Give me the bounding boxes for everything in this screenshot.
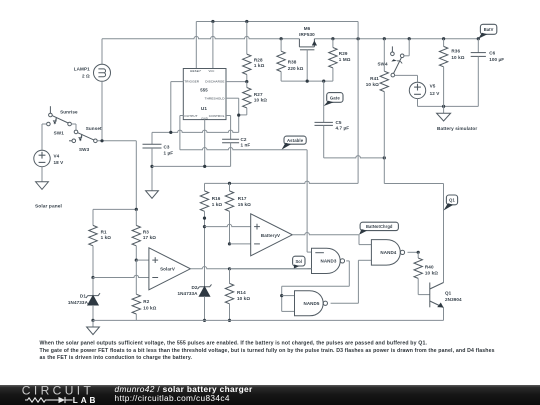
wire NAND4 output to R40	[408, 251, 419, 253]
wire SW1 common to V4	[42, 124, 47, 150]
svg-text:4.7 µF: 4.7 µF	[336, 126, 350, 131]
svg-text:10 kΩ: 10 kΩ	[254, 98, 267, 103]
wire astable vertical to NAND3	[307, 150, 311, 252]
svg-text:C2: C2	[241, 137, 247, 142]
resistor R36	[439, 39, 447, 107]
svg-text:BatV: BatV	[484, 27, 494, 32]
node top-rail R28 junction	[245, 20, 248, 23]
NAND gate NAND5	[295, 291, 324, 316]
svg-text:R14: R14	[237, 290, 246, 295]
zener D1 1N4733A	[86, 278, 100, 321]
svg-text:NAND3: NAND3	[320, 259, 336, 264]
svg-text:CONTROL: CONTROL	[209, 114, 225, 118]
svg-text:2 Ω: 2 Ω	[82, 74, 90, 79]
label R16 value	[212, 196, 223, 207]
wire gate column down to C5	[323, 81, 325, 122]
svg-text:C6: C6	[489, 50, 495, 55]
svg-text:18 V: 18 V	[54, 160, 65, 165]
switch SW3 Sunset	[69, 130, 97, 143]
svg-text:10 kΩ: 10 kΩ	[143, 305, 156, 310]
node R3 op-amp plus junction	[135, 259, 138, 262]
svg-text:TRIGGER: TRIGGER	[184, 80, 199, 84]
resistor R16	[200, 183, 208, 226]
footer bar	[0, 385, 540, 405]
svg-text:1 µF: 1 µF	[164, 151, 174, 156]
svg-text:220 kΩ: 220 kΩ	[288, 66, 304, 71]
svg-text:Solar panel: Solar panel	[35, 203, 62, 209]
node THRESHOLD R27 CONTROL junction	[237, 114, 240, 117]
svg-text:SW3: SW3	[79, 147, 90, 152]
resistor R29	[329, 39, 337, 81]
wire ground bus H3	[152, 165, 231, 167]
ground below C3	[146, 191, 159, 199]
label R14 value	[237, 290, 250, 301]
transistor Q1 2N3904	[430, 283, 444, 321]
resistor R17	[225, 183, 233, 244]
svg-text:SolarV: SolarV	[160, 267, 175, 272]
svg-text:OUTPUT: OUTPUT	[184, 114, 197, 118]
label C3 value	[164, 144, 174, 155]
node NAND4 output joint	[417, 251, 420, 254]
wire panel rail left segment	[102, 36, 299, 38]
label R28 value	[254, 58, 265, 68]
flag Astable	[284, 136, 306, 144]
resistor R41	[380, 39, 388, 158]
svg-text:When the solar panel outputs s: When the solar panel outputs sufficient …	[40, 340, 428, 346]
node C3 ground bus junction	[150, 165, 153, 168]
label V5 value	[430, 84, 441, 96]
svg-text:1 MΩ: 1 MΩ	[339, 57, 351, 62]
wire SW3 to lamp column	[97, 140, 136, 142]
svg-text:R1: R1	[101, 230, 107, 235]
svg-text:R3: R3	[143, 230, 149, 235]
label R27 value	[254, 92, 267, 103]
capacitor C2	[222, 139, 239, 166]
node R38 top junction	[280, 37, 283, 40]
node DISCHARGE R27 R28 junction	[245, 80, 248, 83]
wire SolarV out extension to NAND3 B	[230, 268, 312, 270]
node SolarV out R14 junction	[228, 267, 231, 270]
svg-text:Sunrise: Sunrise	[60, 110, 78, 115]
wire VCC riser from top rail down to battery rail	[357, 22, 359, 39]
wire battery sim bottom	[418, 105, 479, 107]
wire SW1 to SW3	[71, 124, 76, 130]
resistor R38	[277, 39, 285, 81]
NAND gate NAND4	[371, 240, 400, 266]
switch SW1 Sunrise	[47, 106, 72, 126]
label Q1 value	[445, 290, 462, 302]
svg-text:THRESHOLD: THRESHOLD	[205, 96, 226, 100]
resistor R3	[132, 209, 140, 260]
resistor R2	[132, 294, 140, 320]
wire VCC bus to R16 R17	[205, 181, 359, 183]
svg-text:http://circuitlab.com/cu834c4: http://circuitlab.com/cu834c4	[115, 393, 230, 403]
wire R2 column through hop	[135, 260, 137, 294]
flag BatNotChrgd	[360, 222, 398, 230]
flag Sol	[293, 256, 305, 266]
wire minus input bus	[93, 275, 149, 277]
label D1 value	[68, 294, 89, 305]
svg-text:Sol: Sol	[295, 259, 302, 264]
flag Gate	[327, 93, 343, 103]
svg-text:C3: C3	[164, 144, 170, 149]
NAND gate NAND3	[312, 248, 345, 273]
svg-text:NAND5: NAND5	[303, 301, 319, 306]
wire NAND5 input B	[282, 310, 295, 312]
svg-text:D2: D2	[192, 285, 198, 290]
svg-text:IRF530: IRF530	[299, 32, 315, 37]
resistor R14	[225, 269, 233, 321]
svg-text:1 kΩ: 1 kΩ	[101, 235, 112, 240]
resistor R27	[239, 82, 251, 115]
op-amp SolarV	[149, 248, 191, 290]
node M6 gate junction	[306, 80, 309, 83]
wire NAND3 input B from SolarV	[308, 268, 312, 270]
svg-text:Q1: Q1	[449, 198, 455, 203]
svg-text:10 kΩ: 10 kΩ	[366, 82, 379, 87]
svg-text:1N4733A: 1N4733A	[177, 291, 198, 296]
wire 555 OUTPUT stub	[180, 116, 183, 150]
node NAND5 tied inputs junction	[280, 294, 283, 297]
wire main ground bus bottom	[93, 319, 444, 321]
label R2 value	[143, 299, 156, 310]
svg-text:M6: M6	[304, 26, 311, 31]
wire BatteryV output to NAND4	[292, 233, 371, 245]
wire DISCHARGE to R28	[226, 81, 247, 83]
capacitor C3	[143, 132, 162, 190]
label R3 value	[143, 230, 156, 241]
svg-text:R27: R27	[254, 92, 263, 97]
node R36 top junction	[442, 37, 445, 40]
svg-text:1 nF: 1 nF	[241, 143, 251, 148]
svg-text:as the FET is driven into cond: as the FET is driven into conduction to …	[40, 355, 193, 361]
wire SW4 common to rail	[404, 39, 409, 56]
wire SW4 throw to V5	[395, 75, 418, 82]
label R1 value	[101, 230, 112, 241]
label R29 value	[339, 51, 351, 62]
wire BatteryV minus input	[230, 243, 251, 245]
svg-text:R38: R38	[288, 60, 297, 65]
wire 555 RESET riser	[195, 22, 197, 69]
label C2 value	[241, 137, 251, 147]
svg-text:10 kΩ: 10 kΩ	[425, 271, 438, 276]
wire trigger-threshold net H1	[152, 130, 239, 132]
svg-text:R2: R2	[143, 299, 149, 304]
wire NAND3 output loop to NAND5	[282, 261, 350, 312]
voltage source V5 battery	[409, 82, 425, 106]
wire SolarV output	[190, 267, 311, 269]
label R36 value	[451, 49, 464, 60]
svg-text:555: 555	[200, 87, 208, 92]
resistor R28	[243, 22, 251, 82]
wire NAND5 output to NAND4 input B	[331, 260, 372, 303]
node R16 plus input junction	[203, 225, 206, 228]
wire SW3 net down to divider	[93, 141, 136, 226]
node R17 minus input junction	[228, 242, 231, 245]
node R17 top junction	[228, 182, 231, 185]
ground below V4	[36, 182, 49, 190]
svg-text:LAB: LAB	[73, 396, 99, 405]
wire VCC riser battery rail to R16 R17 bus	[357, 39, 359, 184]
svg-text:VCC: VCC	[209, 69, 215, 73]
node BatV C6 corner	[477, 37, 480, 40]
svg-text:10 kΩ: 10 kΩ	[237, 296, 250, 301]
label R38 value	[288, 60, 304, 71]
flag BatV	[480, 24, 496, 34]
switch SW4	[391, 46, 404, 76]
node R1 minus bus junction	[91, 276, 94, 279]
description text	[40, 340, 495, 361]
wire R16 column down to D2	[204, 227, 206, 287]
node GND riser bus junction	[203, 165, 206, 168]
svg-text:12 V: 12 V	[430, 91, 441, 96]
ground battery simulator	[437, 106, 451, 121]
wire CONTROL to C2	[226, 116, 231, 140]
node D2 ground bus junction	[203, 319, 206, 322]
node battery sim ground junction	[442, 105, 445, 108]
wire R3 to SolarV plus input	[136, 259, 149, 261]
svg-text:NAND4: NAND4	[380, 250, 396, 255]
svg-text:LAMP1: LAMP1	[74, 66, 90, 71]
transistor M6 IRF530 power FET	[299, 39, 317, 81]
label C6 value	[489, 50, 504, 62]
svg-text:V4: V4	[54, 154, 60, 159]
label R41 value	[366, 76, 379, 87]
label C5 value	[336, 120, 350, 131]
zener D2 1N4733A	[198, 284, 212, 320]
op-amp BatteryV	[251, 214, 293, 256]
node lamp SW3 junction	[100, 139, 103, 142]
label D2 value	[177, 285, 198, 296]
svg-text:R29: R29	[339, 51, 348, 56]
node divider split junction	[135, 208, 138, 211]
wire C5 to R41 column	[324, 156, 385, 158]
svg-text:SW1: SW1	[54, 130, 65, 135]
svg-text:Sunset: Sunset	[86, 126, 102, 131]
svg-text:RESET: RESET	[190, 69, 202, 73]
svg-text:2N3904: 2N3904	[445, 297, 462, 302]
svg-text:10 kΩ: 10 kΩ	[451, 55, 464, 60]
svg-text:R16: R16	[212, 196, 221, 201]
node SW4 branch junction	[408, 37, 411, 40]
label M6 IRF530	[299, 26, 315, 37]
svg-text:D1: D1	[80, 294, 86, 299]
lamp LAMP1	[94, 39, 111, 141]
node R16 segment joint	[203, 217, 206, 220]
svg-text:R17: R17	[238, 196, 247, 201]
svg-text:15 kΩ: 15 kΩ	[238, 202, 251, 207]
wire 555 VCC riser	[212, 22, 214, 69]
svg-text:Gate: Gate	[330, 95, 340, 100]
svg-text:R41: R41	[370, 76, 379, 81]
svg-text:C5: C5	[336, 120, 342, 125]
footer credit text	[115, 384, 253, 403]
svg-text:DISCHARGE: DISCHARGE	[205, 80, 224, 84]
svg-text:R28: R28	[254, 58, 263, 63]
wire BatteryV plus input	[205, 224, 251, 226]
wire R41 column to Q1 collector	[384, 158, 443, 283]
svg-text:1N4733A: 1N4733A	[68, 300, 89, 305]
wire battery rail right segment	[314, 38, 478, 40]
flag Q1 net	[446, 195, 457, 205]
wire THRESHOLD stub	[226, 98, 239, 132]
node gate flag junction	[322, 80, 325, 83]
capacitor C6	[471, 39, 486, 107]
wire 555 GND riser	[204, 120, 206, 167]
svg-text:1 kΩ: 1 kΩ	[254, 63, 265, 68]
node top-rail VCC riser junction	[211, 20, 214, 23]
label R40 value	[425, 264, 438, 275]
svg-text:V5: V5	[430, 84, 436, 89]
svg-text:R40: R40	[425, 264, 434, 269]
ground main bus	[87, 320, 100, 334]
wire NAND5 input A	[282, 295, 295, 297]
wire TRIGGER stub	[171, 82, 184, 133]
svg-text:BatNotChrgd: BatNotChrgd	[366, 224, 393, 229]
logo CIRCUIT LAB	[22, 384, 99, 405]
node R29 top junction	[331, 37, 334, 40]
svg-text:BatteryV: BatteryV	[261, 233, 280, 238]
label LAMP1 value	[74, 66, 90, 78]
label R17 value	[238, 196, 251, 207]
node D1 ground junction	[91, 319, 94, 322]
svg-text:Astable: Astable	[287, 138, 304, 143]
svg-text:SW4: SW4	[377, 62, 388, 67]
svg-text:U1: U1	[201, 106, 207, 111]
node TRIGGER H1 junction	[169, 131, 172, 134]
label V4 value	[54, 154, 65, 165]
svg-text:17 kΩ: 17 kΩ	[143, 235, 156, 240]
node R41 top junction	[383, 37, 386, 40]
capacitor C5	[315, 122, 333, 157]
node VCC riser rail junction	[357, 37, 360, 40]
resistor R1	[89, 225, 97, 277]
wire VCC top rail	[196, 21, 358, 23]
node C5 R41 junction	[383, 156, 386, 159]
voltage source V4 solar panel	[34, 150, 50, 182]
svg-text:The gate of the power FET floa: The gate of the power FET floats to a bi…	[40, 348, 495, 354]
svg-text:Q1: Q1	[445, 290, 452, 295]
svg-text:R36: R36	[451, 49, 460, 54]
wire gate net R38 to R29	[281, 80, 333, 82]
op-amp U1 555 timer box	[183, 69, 226, 121]
svg-text:100 µF: 100 µF	[489, 57, 504, 62]
svg-text:Battery simulator: Battery simulator	[437, 126, 477, 131]
wire astable net H2	[180, 148, 307, 150]
resistor R40	[414, 252, 430, 294]
svg-text:1 kΩ: 1 kΩ	[212, 202, 223, 207]
node R14 ground bus junction	[228, 319, 231, 322]
